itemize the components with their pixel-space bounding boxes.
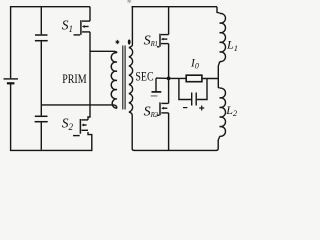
svg-text:SEC: SEC — [135, 69, 153, 83]
svg-text:PRIM: PRIM — [62, 72, 86, 86]
